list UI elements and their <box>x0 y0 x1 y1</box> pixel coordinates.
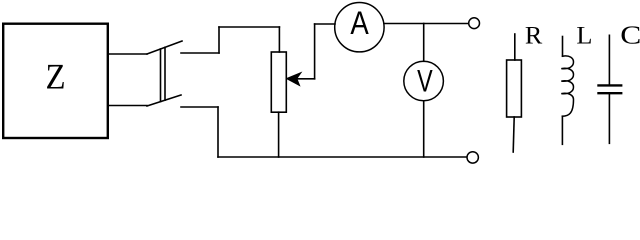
wire riser to top rail <box>218 27 220 53</box>
wire top from Z to switch <box>109 53 148 55</box>
wire potentiometer top lead <box>278 27 280 52</box>
wire wiper riser <box>314 24 316 79</box>
voltmeter V circle <box>404 61 444 101</box>
switch blade S1b <box>147 95 181 106</box>
wire top fixed contact <box>181 52 219 54</box>
wire wiper horizontal <box>297 78 315 80</box>
wire top rail to potentiometer <box>219 26 279 28</box>
wire wiper to ammeter <box>315 23 335 25</box>
capacitor C bottom plate <box>599 92 622 94</box>
wire L branch top <box>562 37 564 57</box>
switch gang link line 1 <box>160 49 162 102</box>
wire R branch bottom <box>513 117 514 152</box>
svg-text:L: L <box>576 21 592 49</box>
wire riser to bottom rail <box>217 107 219 157</box>
potentiometer body <box>271 52 286 112</box>
svg-text:A: A <box>350 4 368 41</box>
wire potentiometer bottom lead <box>278 112 280 157</box>
wire voltmeter top lead <box>423 24 425 62</box>
svg-text:R: R <box>525 21 543 49</box>
wire R branch top <box>514 34 516 60</box>
switch gang link line 2 <box>164 47 166 100</box>
wire bottom rail <box>218 156 467 158</box>
impedance box Z <box>3 24 108 138</box>
terminal bottom <box>467 152 478 163</box>
wire bottom fixed contact <box>181 106 218 108</box>
switch blade S1a <box>147 41 182 54</box>
resistor R body <box>507 60 522 117</box>
svg-text:Z: Z <box>45 57 65 97</box>
wire ammeter to top terminal <box>384 23 469 25</box>
ammeter A circle <box>335 3 384 52</box>
terminal top <box>469 18 480 29</box>
capacitor C top plate <box>599 84 622 86</box>
potentiometer wiper arrowhead <box>287 73 302 86</box>
inductor L coil <box>561 56 573 116</box>
svg-text:C: C <box>620 20 640 49</box>
wire L branch bottom <box>561 116 563 144</box>
wire C branch top <box>608 35 610 84</box>
wire C branch bottom <box>608 95 610 144</box>
svg-text:V: V <box>417 64 433 99</box>
wire voltmeter bottom lead <box>423 101 425 157</box>
wire bottom from Z to switch <box>109 105 148 107</box>
